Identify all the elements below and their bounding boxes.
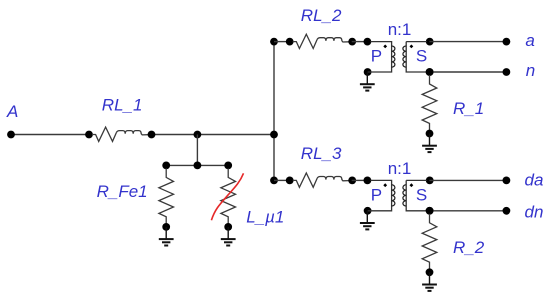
terminal dn dot (503, 207, 511, 215)
transformer T2 (n:1, windings P and S) (364, 159, 434, 215)
L_u1 label (246, 207, 284, 226)
svg-text:L_µ1: L_µ1 (246, 207, 284, 226)
node A label (6, 102, 18, 121)
wire: bottom branch lead (274, 179, 290, 181)
svg-text:RL_1: RL_1 (102, 95, 143, 114)
svg-text:R_2: R_2 (453, 238, 485, 257)
svg-text:A: A (6, 102, 18, 121)
wire: T2 secondary bottom to terminal dn (429, 210, 506, 212)
junction node on magnetizing rail (194, 162, 202, 170)
resistor-inductor RL_3 (286, 173, 356, 187)
svg-text:RL_3: RL_3 (301, 144, 342, 163)
svg-text:a: a (525, 31, 534, 50)
ground under L_u1 (221, 227, 236, 246)
terminal dn label (525, 203, 544, 222)
terminal da label (525, 170, 544, 189)
wire: node A to RL_1 (11, 134, 89, 136)
resistor R_Fe1 (159, 162, 174, 231)
ground under R_Fe1 (159, 227, 174, 246)
R_1 label (453, 99, 484, 118)
wire: T2 secondary top to terminal da (429, 179, 506, 181)
inductor L_u1 (nonlinear, zigzag symbol) (221, 162, 236, 231)
R_2 label (453, 238, 485, 257)
svg-text:R_1: R_1 (453, 99, 484, 118)
resistor R_2 (422, 207, 437, 276)
RL_3 label (301, 144, 342, 163)
RL_2 label (301, 6, 342, 25)
terminal n label (526, 61, 535, 80)
resistor-inductor RL_1 (85, 127, 155, 141)
saturation curve (red) of L_u1 (211, 173, 243, 220)
svg-text:dn: dn (525, 203, 544, 222)
ground under T1 primary (360, 72, 375, 91)
wire: top branch lead (274, 41, 290, 43)
junction node main/branch (270, 131, 278, 139)
terminal a dot (503, 38, 511, 46)
svg-text:da: da (525, 170, 544, 189)
wire: RL_3 to transformer T2 (352, 179, 367, 181)
ground under R_1 (422, 134, 437, 153)
wire: RL_2 to transformer T1 (352, 41, 367, 43)
resistor R_1 (422, 68, 437, 137)
terminal a label (525, 31, 534, 50)
junction node on main bus (194, 131, 202, 139)
node A terminal dot (7, 131, 15, 139)
terminal da dot (503, 177, 511, 185)
resistor-inductor RL_2 (286, 34, 356, 48)
wire: secondary bottom to terminal n (429, 71, 506, 73)
wire: secondary top to terminal a (429, 41, 506, 43)
corner node top branch (270, 38, 278, 46)
terminal n dot (503, 68, 511, 76)
svg-text:n: n (526, 61, 535, 80)
ground under R_2 (422, 272, 437, 291)
R_Fe1 label (97, 182, 148, 201)
wire: vertical branch bus (273, 42, 275, 181)
corner node bottom branch (270, 177, 278, 185)
svg-text:RL_2: RL_2 (301, 6, 342, 25)
svg-text:R_Fe1: R_Fe1 (97, 182, 148, 201)
wire: magnetizing rail (166, 164, 228, 166)
ground under T2 primary (360, 211, 375, 230)
wire: vertical drop to magnetizing rail (196, 135, 198, 166)
RL_1 label (102, 95, 143, 114)
wire: RL_1 to branch point (151, 134, 274, 136)
transformer T1 (n:1, windings P and S) (364, 20, 434, 76)
